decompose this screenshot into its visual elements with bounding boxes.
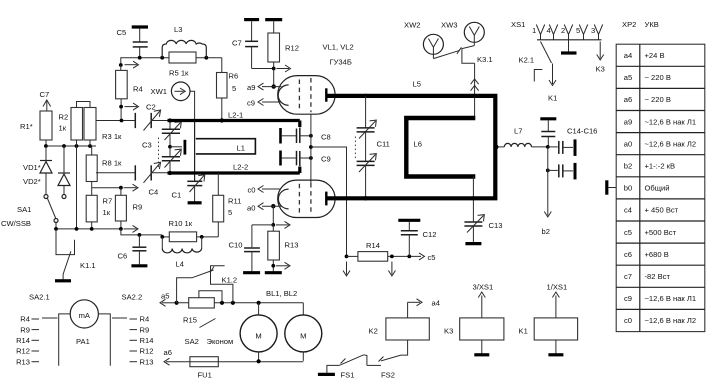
resistor R3 (84, 108, 122, 147)
svg-text:CW/SSB: CW/SSB (1, 219, 31, 228)
svg-text:R13: R13 (140, 357, 154, 366)
wire L6 to C13 (471, 177, 475, 222)
node b2 arrows down (343, 262, 395, 277)
svg-text:5: 5 (228, 208, 232, 217)
labels VL1 VL2 (323, 43, 354, 67)
svg-text:C4: C4 (149, 188, 159, 197)
svg-text:R13: R13 (16, 357, 30, 366)
node R4 top arrow (125, 61, 139, 68)
resistor R11 (213, 173, 242, 237)
svg-text:R11: R11 (228, 197, 241, 206)
svg-text:SA1: SA1 (17, 205, 31, 214)
svg-text:VD1*: VD1* (23, 163, 41, 172)
svg-text:C6: C6 (118, 252, 128, 261)
capacitor C2 (135, 103, 167, 131)
svg-text:R12: R12 (16, 347, 30, 356)
svg-text:K3: K3 (596, 65, 605, 74)
svg-text:c9: c9 (624, 294, 632, 303)
svg-text:R9: R9 (20, 325, 30, 334)
svg-text:XW1: XW1 (151, 87, 167, 96)
capacitor C3 section 1 (142, 121, 181, 150)
connector XP2 title (622, 20, 659, 29)
resistor R14 (345, 241, 421, 261)
svg-text:Эконом: Эконом (207, 337, 234, 346)
svg-text:R4: R4 (133, 85, 143, 94)
wire L2-1 node (168, 118, 172, 122)
node a9 (247, 83, 282, 92)
svg-text:mA: mA (79, 311, 91, 320)
svg-text:R5 1к: R5 1к (169, 69, 189, 78)
svg-text:K1: K1 (519, 327, 528, 336)
svg-text:Общий: Общий (645, 184, 670, 193)
svg-text:c0: c0 (624, 316, 632, 325)
wire meter bracket (59, 314, 111, 366)
wire antenna tap (474, 63, 476, 117)
resistor R2 (59, 108, 83, 147)
pin c6 (624, 250, 669, 259)
svg-text:PA1: PA1 (76, 337, 90, 346)
resistor R12 with chassis (265, 20, 299, 69)
relay K2 (369, 299, 430, 340)
svg-text:~12,6 В нак Л1: ~12,6 В нак Л1 (645, 294, 697, 303)
pin a4 (624, 51, 665, 60)
capacitor C16 feedthrough lower (546, 163, 575, 180)
switch SA2 (185, 319, 234, 347)
inductor L7 (494, 127, 548, 150)
connector XS1 pins (536, 25, 602, 40)
capacitor C9 (281, 151, 331, 167)
svg-text:М: М (255, 332, 261, 341)
wire grid node (92, 184, 138, 191)
wire bias bus (44, 144, 96, 148)
svg-text:c4: c4 (624, 206, 632, 215)
node c9 (247, 98, 281, 107)
svg-text:K1.2: K1.2 (222, 276, 238, 285)
wire to L4 (121, 229, 162, 237)
capacitor C6 (118, 235, 147, 265)
meter PA1 (70, 300, 98, 346)
capacitor C3 section 2 (162, 145, 182, 173)
pin c5 (624, 228, 677, 237)
svg-text:FU1: FU1 (198, 371, 212, 380)
svg-text:5: 5 (232, 84, 236, 93)
svg-text:М: М (300, 332, 306, 341)
svg-text:K2: K2 (369, 327, 378, 336)
node R4 bottom arrow (125, 103, 139, 110)
node a9 feed (252, 65, 291, 85)
svg-text:VL1, VL2: VL1, VL2 (323, 43, 354, 52)
svg-text:SA2.2: SA2.2 (122, 293, 143, 302)
svg-text:R4: R4 (140, 315, 150, 324)
svg-text:C10: C10 (229, 241, 243, 250)
svg-text:1: 1 (532, 26, 536, 35)
wire R2-R3 top bracket (77, 102, 91, 108)
svg-text:R14: R14 (140, 336, 154, 345)
svg-text:-82 Вст: -82 Вст (645, 272, 671, 281)
svg-text:C3: C3 (142, 141, 152, 150)
svg-text:C7: C7 (232, 39, 242, 48)
wire grid link (309, 115, 313, 184)
svg-text:c6: c6 (624, 250, 632, 259)
svg-text:K3: K3 (444, 327, 453, 336)
svg-text:C11: C11 (377, 140, 390, 149)
wire L1 short bar (194, 121, 196, 181)
wire XS1 bus (537, 39, 602, 41)
capacitor C3 tap (170, 140, 185, 155)
svg-text:C1: C1 (172, 191, 182, 200)
svg-text:R6: R6 (229, 72, 239, 81)
svg-text:+680 В: +680 В (645, 250, 669, 259)
wire L5 anode line (328, 80, 496, 199)
wire motor bottom (218, 359, 303, 363)
svg-text:R9: R9 (140, 325, 150, 334)
svg-text:FS1: FS1 (341, 371, 355, 380)
svg-text:c5: c5 (624, 228, 632, 237)
svg-text:c5: c5 (428, 253, 436, 262)
probe XW1 (151, 82, 195, 121)
svg-text:c9: c9 (247, 98, 255, 107)
svg-text:~ 220 В: ~ 220 В (645, 95, 671, 104)
svg-text:SA2.1: SA2.1 (29, 293, 50, 302)
resistor R15 (183, 291, 222, 325)
svg-text:R14: R14 (16, 336, 30, 345)
wire C11 gang dotted (354, 137, 356, 159)
capacitor C7 with chassis (232, 20, 259, 69)
svg-text:3: 3 (591, 26, 595, 35)
stripline L1 (196, 139, 256, 154)
resistor R9 (115, 188, 142, 231)
svg-text:L3: L3 (174, 25, 182, 34)
resistor R13 (268, 225, 299, 271)
svg-text:~ 220 В: ~ 220 В (645, 73, 671, 82)
svg-text:R10 1к: R10 1к (169, 219, 193, 228)
switch SA1 CW/SSB (1, 195, 66, 229)
resistor R7 (86, 188, 112, 231)
capacitor C12 (398, 220, 436, 256)
svg-text:FS2: FS2 (381, 371, 395, 380)
capacitor C10 (229, 225, 274, 271)
svg-text:+24 В: +24 В (645, 51, 665, 60)
relay K1 (519, 283, 578, 355)
svg-text:a9: a9 (624, 117, 632, 126)
svg-text:R1*: R1* (20, 122, 33, 131)
svg-text:a6: a6 (624, 95, 632, 104)
connector XP2 plug pin b0 (607, 180, 616, 194)
node a5 (160, 292, 179, 307)
stripline L6 (406, 118, 475, 177)
ground at R13 (265, 271, 282, 274)
svg-text:~12,6 В нак Л2: ~12,6 В нак Л2 (645, 316, 697, 325)
pin b2 (624, 162, 675, 171)
svg-text:K1.1: K1.1 (80, 261, 96, 270)
resistor R5 (169, 52, 196, 78)
wire L2-2 (168, 167, 300, 176)
jack XW2 (404, 21, 443, 59)
svg-text:BL1, BL2: BL1, BL2 (266, 289, 297, 298)
node K1 arrow (548, 64, 557, 103)
svg-text:C5: C5 (117, 28, 127, 37)
node c5 (419, 253, 436, 262)
resistor R10 (160, 219, 218, 242)
svg-text:5: 5 (576, 26, 580, 35)
svg-text:b2: b2 (624, 162, 632, 171)
capacitor C4 (96, 162, 168, 196)
svg-text:VD2*: VD2* (23, 177, 41, 186)
pin a9 (624, 117, 696, 126)
svg-text:C2: C2 (146, 103, 156, 112)
tube VL2 (278, 180, 335, 217)
jack XW3 (441, 21, 484, 46)
contact K1.2 (177, 266, 238, 303)
wire tap chevrons (471, 79, 479, 91)
svg-text:a4: a4 (432, 299, 440, 308)
svg-text:R4: R4 (20, 315, 30, 324)
svg-text:2: 2 (561, 26, 565, 35)
pin a6 (624, 95, 671, 104)
motor BL1 (240, 289, 297, 361)
diode VD2 (23, 146, 70, 194)
node b2 (542, 147, 552, 236)
svg-text:R12: R12 (140, 347, 154, 356)
fuse FU1 (190, 357, 218, 380)
svg-text:C14-C16: C14-C16 (567, 127, 597, 136)
svg-text:XW2: XW2 (404, 21, 420, 30)
contact FS2 (367, 340, 408, 380)
capacitor C15 feedthrough upper (546, 139, 575, 156)
capacitor C14-C16 with chassis (540, 119, 597, 147)
wire a5 bus (177, 301, 304, 305)
svg-text:1/XS1: 1/XS1 (547, 283, 568, 292)
pin a5 (624, 73, 671, 82)
ground at C13 (465, 242, 481, 245)
svg-text:~12,6 В нак Л1: ~12,6 В нак Л1 (645, 117, 697, 126)
ground at FS1 (318, 373, 335, 376)
svg-text:+500 Вст: +500 Вст (645, 228, 677, 237)
wire R2 bottom to SA1 bus (76, 146, 78, 229)
capacitor C11 section 2 (357, 132, 377, 201)
svg-text:C8: C8 (321, 133, 331, 142)
connector XS1 (511, 20, 595, 35)
svg-text:1к: 1к (103, 208, 111, 217)
svg-text:L5: L5 (413, 80, 421, 89)
svg-text:C7: C7 (40, 90, 50, 99)
resistor R6 (217, 58, 239, 123)
svg-text:a5: a5 (624, 73, 632, 82)
svg-text:a0: a0 (624, 139, 632, 148)
svg-text:R13: R13 (285, 241, 299, 250)
contact FS1 (327, 355, 367, 380)
wire SA1 output bus (54, 227, 121, 231)
svg-text:c0: c0 (248, 186, 256, 195)
svg-text:K2.1: K2.1 (519, 56, 535, 65)
resistor R1 (20, 111, 52, 146)
capacitor C11 section 1 (357, 94, 390, 149)
svg-text:a9: a9 (247, 83, 255, 92)
svg-text:a0: a0 (247, 204, 255, 213)
svg-text:b2: b2 (542, 227, 550, 236)
svg-text:3/XS1: 3/XS1 (473, 283, 494, 292)
pin c7 (624, 272, 670, 281)
wire heater feed (119, 56, 222, 67)
svg-text:R14: R14 (366, 241, 380, 250)
motor BL2 (285, 303, 322, 361)
resistor R4 (116, 65, 143, 121)
svg-text:C9: C9 (321, 155, 331, 164)
svg-text:L7: L7 (514, 127, 522, 136)
node c7 (40, 90, 51, 111)
node K3 arrow (596, 42, 605, 74)
svg-text:b0: b0 (624, 184, 632, 193)
ground at C10 (243, 271, 260, 274)
svg-text:XW3: XW3 (441, 21, 457, 30)
connector XP2 pin table (616, 44, 705, 331)
svg-text:L6: L6 (414, 140, 422, 149)
node a0 (247, 203, 282, 225)
capacitor C5 with chassis (117, 27, 149, 58)
svg-text:XS1: XS1 (511, 20, 525, 29)
svg-text:L2-1: L2-1 (228, 111, 243, 120)
tube VL1 (278, 76, 335, 115)
svg-text:K1: K1 (548, 94, 557, 103)
inductor L3 (162, 25, 206, 58)
contact K3.1 (433, 46, 492, 64)
svg-text:+1-:-2 кВ: +1-:-2 кВ (645, 162, 676, 171)
svg-text:~12,6 В нак Л2: ~12,6 В нак Л2 (645, 139, 697, 148)
svg-text:R9: R9 (133, 203, 143, 212)
svg-text:R3 1к: R3 1к (102, 132, 122, 141)
wire L2-1 (168, 121, 300, 128)
ground at K1.1 (55, 279, 71, 282)
inductor L4 (162, 237, 201, 269)
svg-text:C12: C12 (423, 230, 437, 239)
svg-text:a6: a6 (164, 348, 172, 357)
svg-text:1к: 1к (59, 124, 67, 133)
pin b0 (624, 184, 670, 193)
svg-text:R2: R2 (59, 113, 69, 122)
svg-text:ХР2: ХР2 (622, 20, 636, 29)
pin c0 (624, 316, 696, 325)
ground at C1 (188, 201, 202, 204)
pin c4 (624, 206, 679, 215)
wire R3 to C2 (96, 119, 135, 123)
svg-text:K3.1: K3.1 (477, 55, 493, 64)
svg-text:ГУ34Б: ГУ34Б (330, 58, 352, 67)
svg-text:R8 1к: R8 1к (102, 159, 122, 168)
contact K1.1 (56, 229, 96, 280)
contact K2.1 (519, 42, 552, 82)
svg-text:C13: C13 (489, 221, 503, 230)
node rows SA2.2 (112, 315, 153, 367)
ground at XS1 pin2 (561, 40, 577, 53)
svg-text:R7: R7 (103, 197, 113, 206)
capacitor C8 (281, 128, 331, 144)
svg-text:+ 450 Вст: + 450 Вст (645, 206, 679, 215)
resistor R8 (86, 146, 122, 188)
wire to R14 (311, 147, 347, 256)
capacitor C13 (464, 215, 502, 242)
node rows SA2.1 (16, 315, 57, 367)
node a0 bottom arrow (271, 221, 290, 228)
svg-text:a4: a4 (624, 51, 632, 60)
wire a6 to FU1 (164, 358, 190, 365)
pin a0 (624, 139, 696, 148)
diode VD1 (23, 146, 52, 194)
node R9 bottom arrow (124, 225, 139, 232)
ground at C6 (131, 264, 147, 267)
svg-text:L1: L1 (237, 144, 245, 153)
svg-text:УКВ: УКВ (645, 20, 659, 29)
svg-text:L2-2: L2-2 (233, 163, 248, 172)
svg-text:R12: R12 (285, 44, 299, 53)
pin c9 (624, 294, 696, 303)
svg-text:SA2: SA2 (185, 337, 199, 346)
wire C3 gang dotted (158, 138, 160, 169)
capacitor C1 (172, 175, 205, 202)
svg-text:L4: L4 (176, 260, 184, 269)
svg-text:c7: c7 (624, 272, 632, 281)
svg-text:R15: R15 (183, 316, 197, 325)
relay K3 (444, 283, 504, 355)
node c0 (248, 186, 281, 195)
